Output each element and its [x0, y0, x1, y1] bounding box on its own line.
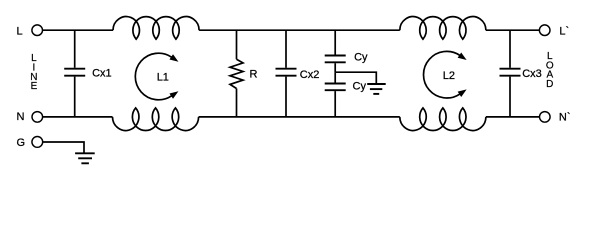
svg-text:R: R — [250, 69, 258, 81]
svg-text:Cx2: Cx2 — [300, 69, 320, 81]
svg-text:Cx1: Cx1 — [92, 68, 112, 80]
svg-text:Cy: Cy — [354, 51, 368, 63]
svg-text:L1: L1 — [157, 71, 169, 83]
svg-text:E: E — [31, 81, 38, 92]
svg-text:N`: N` — [559, 111, 571, 123]
svg-text:Cx3: Cx3 — [522, 68, 542, 80]
svg-text:Cy: Cy — [353, 81, 367, 93]
svg-text:G: G — [17, 137, 26, 149]
svg-text:L`: L` — [559, 25, 569, 37]
svg-text:N: N — [17, 111, 25, 123]
svg-text:D: D — [546, 79, 553, 90]
svg-text:L2: L2 — [443, 70, 455, 82]
svg-text:L: L — [17, 25, 23, 37]
